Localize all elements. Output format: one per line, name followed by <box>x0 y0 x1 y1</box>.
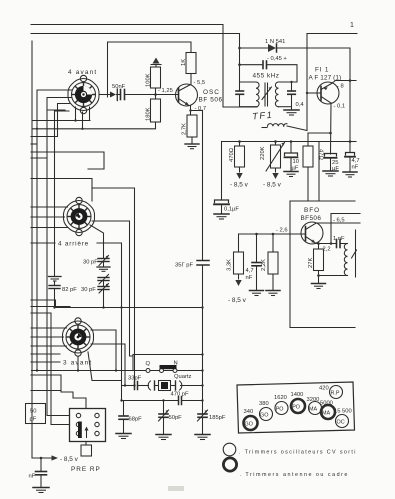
svg-text:470 pF: 470 pF <box>171 392 190 398</box>
trimmer 30pF lower <box>98 284 109 308</box>
wire sw2 right pin to x129 <box>92 221 133 356</box>
ground 10uF <box>284 172 298 177</box>
junction dots rail <box>238 140 292 143</box>
resistor 180K <box>151 99 161 122</box>
transistor FI1 AF127 <box>317 82 339 104</box>
wire sw2 left pin B <box>31 216 65 218</box>
svg-text:pF: pF <box>30 417 37 423</box>
resistor 3,3K <box>234 234 244 286</box>
inductor bfo coil <box>319 244 348 276</box>
wire sw3 left pin A <box>31 327 67 329</box>
ground osc emitter <box>185 144 199 149</box>
trimmer mid under S2 <box>98 275 109 287</box>
trimmer 50pF <box>159 401 169 435</box>
svg-text:OC: OC <box>337 420 345 426</box>
trimmer OC thin <box>336 415 349 428</box>
wire sw1 pin E <box>47 109 65 111</box>
wire emitter up to rail <box>332 81 357 84</box>
junction dot sec top <box>290 81 292 83</box>
rotary switch S3 "3 avant" <box>62 318 93 356</box>
switch QN contacts <box>146 369 177 373</box>
svg-text:340: 340 <box>244 409 254 415</box>
ground 185pF <box>195 435 210 440</box>
wire y354 stub <box>31 353 60 355</box>
svg-text:82 pF: 82 pF <box>62 287 77 293</box>
wire sw1 left pin C <box>31 104 70 137</box>
svg-text:N: N <box>174 361 178 367</box>
junction dots on x240 <box>238 47 241 66</box>
wire sw3 left pin C <box>31 345 67 347</box>
svg-text:- 6,5: - 6,5 <box>333 218 345 224</box>
svg-text:GO: GO <box>245 422 253 428</box>
transformer TF1 core <box>262 83 272 106</box>
svg-text:4,7: 4,7 <box>352 158 360 164</box>
capacitor 0,1uF <box>214 200 229 213</box>
trimmer PO thick <box>291 399 305 413</box>
wire 100K bottom to node <box>155 88 157 99</box>
ground 68pF <box>116 434 131 439</box>
wire bfo collector up <box>315 222 317 225</box>
wire 1K to collector <box>190 74 192 85</box>
capacitor nF bottom <box>36 458 47 487</box>
wire below connector <box>85 442 87 446</box>
svg-text:50: 50 <box>30 409 36 415</box>
wire y158 stub <box>31 157 47 159</box>
svg-text:30 pF: 30 pF <box>83 260 98 266</box>
svg-text:10: 10 <box>293 159 299 165</box>
wire sw2 label row to x121 <box>31 242 55 244</box>
resistor 100K <box>151 67 161 88</box>
capacitor 0,45 <box>240 61 298 82</box>
wire y169 stub <box>88 168 104 170</box>
svg-text:- 8,5 v: - 8,5 v <box>230 182 249 189</box>
wire quartz left vertical <box>132 355 134 371</box>
wire bus y120 <box>32 120 90 122</box>
svg-text:1 nF: 1 nF <box>333 236 345 242</box>
resistor 27K <box>314 244 324 284</box>
wire sw2 top right feeder <box>31 179 92 202</box>
svg-text:27K: 27K <box>308 258 314 268</box>
link winding <box>262 124 307 131</box>
arrow -8,5v <box>52 455 59 460</box>
wire 1K feed <box>108 42 192 97</box>
wire x331 drop <box>330 214 332 244</box>
label box 50pF <box>26 404 46 424</box>
quartz crystal <box>148 381 202 391</box>
wire bus y128 to 180K <box>32 122 156 129</box>
wire sw1 left pin A long vertical <box>37 90 72 371</box>
wires into connector <box>47 415 70 417</box>
svg-text:- 0,1: - 0,1 <box>334 104 346 110</box>
svg-text:- 5,5: - 5,5 <box>194 80 206 86</box>
wire top rail 1 <box>31 25 223 108</box>
capacitor 33pF <box>135 382 149 390</box>
wire y152 row <box>31 152 104 169</box>
wire collector to 47 top <box>308 132 331 134</box>
wire 47 top stub <box>307 133 309 146</box>
svg-text:0,1µF: 0,1µF <box>224 207 239 213</box>
wire y306 stub <box>31 306 70 308</box>
connector pins left <box>76 413 80 435</box>
wire sw1 bottom pin v3 <box>89 107 91 121</box>
wire bottom L to right <box>290 327 355 329</box>
SECTION: fi1 <box>296 22 360 201</box>
capacitor 68pF <box>119 401 128 434</box>
wire collector down <box>330 103 333 154</box>
svg-text:220K: 220K <box>260 146 266 160</box>
junction 4,7nF top <box>349 140 352 143</box>
svg-text:- 0,45 +: - 0,45 + <box>267 56 287 62</box>
ground bottom left <box>33 488 49 493</box>
wire sw2 label row right <box>97 243 122 401</box>
wire 2.7K to ground <box>191 137 193 144</box>
capacitor 4,7nF <box>345 153 355 172</box>
ground 0,1uF <box>214 214 229 219</box>
junction dots mesh lower <box>36 306 136 401</box>
wire x202 lower vertical <box>202 265 204 413</box>
coupling arrow symbol <box>100 89 117 101</box>
wire sw1 left pin D long vertical <box>55 111 70 277</box>
junction dots mesh top <box>36 119 84 130</box>
svg-text:68pF: 68pF <box>129 417 143 423</box>
svg-text:MA: MA <box>309 407 317 413</box>
svg-text:0,4: 0,4 <box>296 102 305 108</box>
wire y144 stub <box>31 143 37 145</box>
wire base stub <box>156 94 179 96</box>
wire bfo left drop x290 <box>289 201 291 328</box>
junction emitter dots <box>317 242 332 245</box>
capacitor 1nF <box>337 240 348 248</box>
trimmer MA thick <box>321 405 335 419</box>
resistor 470 <box>235 142 245 180</box>
core line bfo <box>355 230 357 277</box>
resistor variable 220K <box>266 142 285 180</box>
wire sw3 right pin to x116 <box>91 330 116 371</box>
svg-text:2,2K: 2,2K <box>261 259 267 271</box>
junction dot S2 cap rail <box>53 306 55 308</box>
trimmer GO thick <box>244 416 258 430</box>
wire rail y33 right <box>307 33 357 35</box>
svg-text:50pF: 50pF <box>169 415 183 421</box>
junction collector node <box>329 132 332 135</box>
svg-text:4,7: 4,7 <box>246 268 254 274</box>
connector PRE RP block <box>70 409 106 442</box>
ground 27K <box>312 284 326 289</box>
svg-text:1620: 1620 <box>274 395 287 401</box>
capacitor tank right <box>288 82 296 109</box>
wire bfo supply drop x319 <box>318 142 320 202</box>
capacitor 25uF <box>325 154 337 171</box>
svg-text:47Ω: 47Ω <box>318 149 324 160</box>
wire sw2 left pin C <box>31 227 68 229</box>
wire sw2 left pin A <box>31 206 68 208</box>
svg-text:33pF: 33pF <box>128 376 142 382</box>
junction 50pF <box>162 399 164 401</box>
resistor 2,2K <box>268 234 278 290</box>
capacitor 50nF <box>117 90 156 100</box>
svg-text:Quartz: Quartz <box>174 374 191 380</box>
connector arrow <box>85 427 89 438</box>
capacitor 470pF <box>179 397 203 405</box>
svg-text:50nF: 50nF <box>112 84 126 90</box>
wire y390 stub <box>31 390 61 392</box>
svg-text:3 avant: 3 avant <box>63 360 92 367</box>
svg-text:. Trimmers oscillateurs CV: . Trimmers oscillateurs CV sorti <box>239 450 357 456</box>
trimmer PO thin <box>275 402 288 415</box>
wire y313 to connector col <box>31 313 51 425</box>
svg-text:30 pF: 30 pF <box>81 287 96 293</box>
ground 50pF <box>156 435 171 440</box>
connector pins right <box>95 413 99 435</box>
rotary switch S2 "4 arriere" <box>63 197 94 235</box>
svg-text:- 8,5 v: - 8,5 v <box>263 182 282 189</box>
svg-text:µF: µF <box>292 166 299 172</box>
svg-text:Q: Q <box>146 361 151 367</box>
svg-text:BFO: BFO <box>304 207 320 214</box>
wire bus y307 <box>56 307 203 309</box>
connector shorting bar <box>78 422 82 439</box>
wire bfo base <box>239 233 306 235</box>
wire sw3 left pin B <box>31 336 64 338</box>
ground 25uF <box>323 171 338 176</box>
svg-text:1 N 541: 1 N 541 <box>265 39 285 45</box>
wire emitter down <box>190 106 192 116</box>
wire quartz top rail <box>133 354 203 356</box>
wire sw1 bottom pin v1 <box>75 107 77 121</box>
wire switch QN row <box>32 370 203 372</box>
wire rail y213 <box>331 213 360 215</box>
svg-text:4 arrière: 4 arrière <box>58 241 89 248</box>
trimmer MA thin <box>309 402 322 415</box>
junction node -1,25 <box>154 93 157 96</box>
svg-text:380: 380 <box>259 401 269 407</box>
rotary switch S1 "4 avant" <box>68 75 99 113</box>
svg-text:PO: PO <box>292 405 300 411</box>
SECTION: connector <box>26 404 106 493</box>
diode 1N541 <box>268 44 350 153</box>
transistor OSC BF506 <box>176 84 198 106</box>
svg-text:15 500: 15 500 <box>334 409 352 415</box>
wire base stub <box>307 92 321 94</box>
wire TF1 bottom rail <box>223 106 257 108</box>
SECTION: bfo <box>227 207 361 304</box>
svg-text:1K: 1K <box>181 59 187 66</box>
connector lower square <box>81 445 92 456</box>
svg-text:TF1: TF1 <box>252 110 274 122</box>
wire FI1 base vertical <box>306 34 308 131</box>
svg-text:nF: nF <box>352 165 359 171</box>
resistor 1K <box>186 53 196 74</box>
SECTION: quartz <box>32 265 226 440</box>
svg-text:185pF: 185pF <box>209 415 226 421</box>
svg-text:PRE RP: PRE RP <box>71 466 101 473</box>
wire sw1 bottom pin v2 <box>82 112 84 129</box>
junction dots x202 <box>201 306 203 401</box>
svg-text:BF506: BF506 <box>301 215 322 222</box>
wire sw1 left pin B long vertical <box>47 98 72 416</box>
svg-text:- 1,25: - 1,25 <box>158 88 173 94</box>
wire y362 stub <box>31 361 60 363</box>
svg-text:470Ω: 470Ω <box>229 147 235 162</box>
junction nF tap <box>40 457 43 460</box>
SECTION: osc <box>100 53 223 269</box>
SECTION: trimmerbox <box>223 382 357 478</box>
wire connector second <box>51 424 70 426</box>
svg-text:R.P: R.P <box>331 391 340 397</box>
svg-text:- 8: - 8 <box>337 84 344 90</box>
wire y300 stub <box>31 300 56 308</box>
svg-text:420: 420 <box>319 386 329 392</box>
SECTION: switches <box>49 69 111 367</box>
svg-text:nF: nF <box>29 474 36 480</box>
svg-text:BF 506: BF 506 <box>199 97 223 104</box>
trimmer 30pF under S2 <box>97 256 110 272</box>
svg-text:3200: 3200 <box>307 397 320 403</box>
svg-text:- 8,5 v: - 8,5 v <box>60 456 79 463</box>
svg-text:- 2,6: - 2,6 <box>276 228 288 234</box>
legend circle thin <box>223 443 236 456</box>
SECTION: if / tf1 <box>223 39 350 153</box>
transistor BFO BF506 <box>301 222 323 244</box>
ground 4,7nF <box>343 172 357 177</box>
wire collector rail y223 <box>316 222 361 224</box>
trimmer RP thin <box>330 386 343 399</box>
wire 47 bottom down <box>307 167 309 201</box>
svg-text:180K: 180K <box>146 107 152 121</box>
ground 2,2K <box>266 291 280 296</box>
junction coil return <box>317 274 320 277</box>
legend circle thick <box>223 458 236 471</box>
transformer TF1 secondary <box>275 82 297 107</box>
SECTION: midres <box>214 140 355 327</box>
wire y375 stub <box>31 375 61 392</box>
trimmer 185pF <box>198 410 208 434</box>
switch QN bar <box>160 365 177 369</box>
svg-text:455 kHz: 455 kHz <box>253 73 280 80</box>
svg-text:100K: 100K <box>146 73 152 87</box>
wire top rail 2 <box>31 34 240 91</box>
SECTION: mesh left <box>31 90 203 425</box>
svg-text:GO: GO <box>260 413 268 419</box>
capacitor 82pF with ground above <box>49 277 62 308</box>
svg-text:1: 1 <box>350 22 354 29</box>
resistor 2.7K <box>187 115 197 137</box>
svg-text:PO: PO <box>276 407 284 413</box>
svg-text:FI 1: FI 1 <box>315 67 329 74</box>
wire bfo emitter row <box>316 243 336 245</box>
capacitor 10uF <box>285 142 298 171</box>
wire sw2 bottom pin to trimmers <box>90 225 104 259</box>
svg-text:35Γ pF: 35Γ pF <box>175 263 193 269</box>
svg-text:. Trimmers antenne ou cadre: . Trimmers antenne ou cadre <box>240 472 349 478</box>
core arrow slash <box>352 250 357 258</box>
wire bfo supply rail y201 <box>290 200 355 202</box>
wire emitter to x203 <box>191 111 203 261</box>
wire 4,7nF tick <box>350 141 356 143</box>
junction dots base rail <box>255 233 274 236</box>
wire path to connector top <box>61 392 86 409</box>
transformer TF1 primary <box>240 82 260 107</box>
capacitor tank left <box>236 91 244 108</box>
junction emitter-diode <box>349 79 352 82</box>
wire quartz row <box>122 385 135 387</box>
svg-text:- 0,7: - 0,7 <box>195 106 207 112</box>
svg-text:nF: nF <box>246 275 253 281</box>
svg-text:MA: MA <box>322 411 330 417</box>
wire sw3 right pin to x125 <box>91 344 125 386</box>
svg-text:- 8,5 v: - 8,5 v <box>228 297 247 304</box>
svg-text:2,7K: 2,7K <box>182 123 188 135</box>
junction emitter <box>189 109 191 111</box>
ground 47nF <box>250 291 264 296</box>
wire sw3 bottom pin <box>77 357 79 371</box>
scan smudge <box>168 486 184 491</box>
wire sw2 right pin to x134 <box>92 188 135 386</box>
trimmer box outline <box>237 382 355 433</box>
wire sw3 bottom right pin <box>88 352 122 381</box>
svg-text:4 avant: 4 avant <box>68 69 97 76</box>
wire 470pF bus <box>122 400 179 402</box>
trimmer GO thin <box>260 408 273 421</box>
resistor 47 <box>303 146 313 167</box>
svg-text:1400: 1400 <box>291 392 304 398</box>
wire supply rail y141 <box>222 142 350 200</box>
wire -8,5v feed <box>32 457 52 459</box>
ground TF1 <box>284 110 299 115</box>
diode 1N541 wire <box>240 47 269 49</box>
svg-text:5000: 5000 <box>320 401 333 407</box>
capacitor 47nF <box>252 234 261 290</box>
junction base <box>306 92 308 94</box>
power arrow above 100K <box>151 58 161 68</box>
capacitor 350pF series <box>197 261 209 266</box>
wire left main vertical <box>31 41 33 458</box>
svg-text:OSC: OSC <box>203 89 220 96</box>
svg-text:3,3K: 3,3K <box>227 259 233 271</box>
